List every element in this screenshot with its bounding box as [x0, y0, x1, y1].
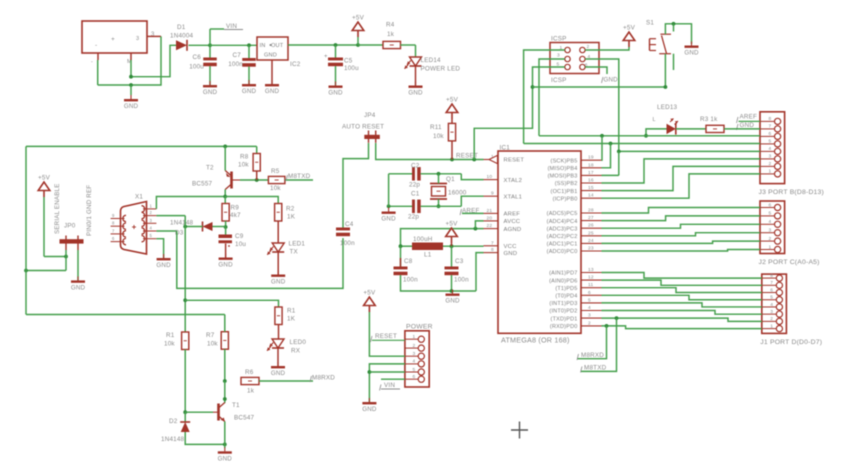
- wire ICSP MOSI: [585, 59, 619, 151]
- wire S1 to RESET net: [533, 54, 674, 89]
- svg-text:-: -: [91, 59, 93, 65]
- svg-text:GND: GND: [381, 216, 396, 223]
- ground S1: [684, 42, 699, 57]
- svg-text:(T1)PD5: (T1)PD5: [555, 286, 577, 292]
- svg-text:S1: S1: [646, 19, 654, 26]
- svg-text:100n: 100n: [454, 277, 469, 284]
- wire PB4 to MISO row: [602, 144, 611, 168]
- svg-text:D1: D1: [177, 24, 186, 31]
- wire PC3 to J2: [602, 224, 761, 228]
- svg-text:GND: GND: [504, 251, 518, 257]
- svg-text:(MISO)PB4: (MISO)PB4: [548, 166, 578, 172]
- svg-text:15: 15: [588, 185, 594, 191]
- wire filter ground bus: [401, 275, 477, 293]
- wire MISO row to J3: [524, 142, 760, 146]
- svg-text:POWER LED: POWER LED: [421, 66, 461, 73]
- svg-text:GND: GND: [271, 279, 286, 286]
- node GND label ICSP: [602, 77, 619, 84]
- wire VIN rail to C7 and IC2: [210, 43, 257, 47]
- svg-text:11: 11: [588, 282, 594, 288]
- wire C8 tap: [400, 246, 402, 266]
- svg-text:(ICP)PB0: (ICP)PB0: [553, 196, 578, 202]
- wire M8TXD label line: [581, 318, 617, 371]
- svg-text:L: L: [653, 117, 656, 123]
- wire C7 to ground: [248, 67, 250, 84]
- svg-text:R2: R2: [286, 206, 295, 213]
- wire R7 bottom to R6 node: [223, 349, 227, 383]
- svg-text:+5V: +5V: [446, 221, 459, 228]
- power +5V serial enable: [38, 175, 51, 198]
- svg-text:C9: C9: [235, 233, 244, 240]
- resistor R8: [238, 154, 260, 172]
- wire IC2 out to +5V rail: [288, 43, 360, 47]
- wire SCK row to J3: [539, 134, 760, 138]
- wire PD5 to J1: [602, 288, 762, 293]
- wire C5 tap: [335, 45, 337, 58]
- svg-text:3: 3: [769, 154, 772, 160]
- ground LED1: [271, 271, 286, 286]
- svg-text:(TXD)PD1: (TXD)PD1: [551, 316, 578, 322]
- wire PD0 to J1: [602, 326, 762, 329]
- svg-text:GND: GND: [740, 122, 755, 129]
- svg-text:L1: L1: [424, 252, 432, 259]
- resistor R1: [275, 307, 296, 325]
- wire R9 to D3 node: [224, 221, 228, 229]
- svg-text:2: 2: [770, 316, 773, 322]
- wire D3 cathode to RX column: [183, 225, 202, 229]
- svg-text:23: 23: [588, 246, 594, 252]
- mcu IC1 reset pin symbol: [489, 155, 498, 163]
- wire D2 to ground: [185, 432, 227, 446]
- svg-text:3: 3: [770, 309, 773, 315]
- svg-text:4: 4: [770, 302, 773, 308]
- svg-text:14: 14: [588, 193, 594, 199]
- capacitor C5: [324, 54, 359, 72]
- wire PD2 to J1: [602, 311, 762, 315]
- node RESET label POWER: [371, 333, 405, 342]
- wire JP4 to RESET net: [376, 143, 484, 161]
- wire ICSP VCC to +5V: [585, 47, 629, 50]
- svg-text:1N4004: 1N4004: [170, 33, 194, 40]
- wire T2 collector: [223, 190, 227, 199]
- svg-text:2: 2: [769, 161, 772, 167]
- svg-text:TX: TX: [290, 249, 299, 256]
- resistor R7: [206, 332, 228, 350]
- svg-text:+5V: +5V: [352, 15, 365, 22]
- svg-text:10k: 10k: [433, 133, 444, 140]
- svg-text:OUT: OUT: [271, 43, 284, 49]
- svg-text:100n: 100n: [403, 277, 418, 284]
- svg-text:3: 3: [557, 53, 560, 59]
- svg-text:8: 8: [769, 116, 772, 122]
- power +5V AVCC: [446, 221, 459, 247]
- wire RX to R1 top: [185, 300, 278, 307]
- svg-text:Q1: Q1: [446, 176, 455, 183]
- wire R6 to M8RXD: [259, 380, 313, 382]
- wire C7 tap: [248, 45, 250, 58]
- wire R2 to LED1: [277, 221, 279, 243]
- wire T1 emitter to ground: [224, 422, 226, 449]
- svg-text:XTAL2: XTAL2: [504, 178, 523, 184]
- LED13: [653, 104, 679, 135]
- wire PC5 to J2: [602, 208, 761, 214]
- wire RX column: [183, 216, 187, 332]
- svg-text:17: 17: [588, 170, 594, 176]
- svg-text:1: 1: [769, 169, 772, 175]
- svg-text:8: 8: [770, 273, 773, 279]
- capacitor C8: [394, 258, 419, 284]
- svg-text:7: 7: [491, 240, 494, 246]
- svg-text:C8: C8: [404, 258, 413, 265]
- wire X1 pin5 to ground: [156, 239, 163, 258]
- svg-text:AGND: AGND: [504, 227, 522, 233]
- svg-text:1: 1: [769, 244, 772, 250]
- svg-text:C5: C5: [344, 58, 353, 65]
- connector X1 DB9: [121, 194, 147, 255]
- wire ICSP RESET: [474, 67, 565, 160]
- svg-text:3: 3: [588, 313, 591, 319]
- resistor R9: [222, 204, 241, 222]
- wire MOSI row to J3: [617, 150, 760, 154]
- svg-text:9: 9: [491, 191, 494, 197]
- inductor L1: [412, 236, 443, 259]
- wire R8 top: [256, 146, 258, 153]
- svg-text:M8RXD: M8RXD: [581, 352, 604, 359]
- svg-text:IC2: IC2: [290, 61, 301, 68]
- header ICSP body: [550, 36, 599, 85]
- header POWER body: [405, 324, 433, 388]
- resistor R3: [700, 116, 724, 133]
- svg-text:7: 7: [769, 124, 772, 130]
- cursor cross mark: [511, 422, 528, 439]
- svg-text:(SS)PB2: (SS)PB2: [555, 181, 578, 187]
- wire +5V to JP0: [26, 197, 68, 271]
- wire power jack tip to diode: [129, 45, 176, 78]
- svg-text:ATMEGA8 (OR 168): ATMEGA8 (OR 168): [501, 336, 570, 345]
- svg-text:100n: 100n: [228, 61, 243, 68]
- wire C9 top: [225, 227, 227, 235]
- svg-text:6: 6: [769, 131, 772, 137]
- wire crystal top: [438, 174, 440, 184]
- svg-text:5: 5: [769, 211, 772, 217]
- svg-text:(SCK)PB5: (SCK)PB5: [551, 158, 578, 164]
- svg-text:(ADC0)PC0: (ADC0)PC0: [547, 249, 578, 255]
- svg-text:ICSP: ICSP: [551, 77, 567, 84]
- svg-text:GND: GND: [218, 455, 233, 462]
- svg-text:RESET: RESET: [375, 333, 397, 340]
- wire PD1 to J1: [602, 318, 762, 321]
- capacitor C2: [409, 163, 421, 189]
- node RESET label near IC1: [456, 153, 478, 160]
- wire C4 top to JP4: [343, 143, 369, 228]
- wire C9 to ground: [225, 244, 227, 258]
- ground T1: [218, 447, 233, 462]
- mcu IC1 right pins: [547, 155, 602, 330]
- wire X1 pin4 to DTR column: [156, 230, 176, 232]
- svg-text:SERIAL ENABLE: SERIAL ENABLE: [54, 183, 61, 234]
- svg-text:26: 26: [588, 223, 594, 229]
- svg-text:GND: GND: [265, 88, 280, 95]
- resistor R5: [268, 168, 285, 192]
- svg-text:R3 1k: R3 1k: [700, 116, 718, 123]
- wire M8RXD label line: [577, 326, 606, 359]
- label PIN0/1 GND REF: [86, 185, 93, 236]
- wire PD7 to J1: [602, 273, 762, 279]
- wire POWER gnd pins: [368, 364, 405, 402]
- svg-text:RESET: RESET: [504, 158, 525, 164]
- connector X1 contacts: [121, 206, 147, 245]
- svg-text:M8TXD: M8TXD: [288, 173, 311, 180]
- svg-text:GND: GND: [71, 284, 86, 291]
- diode D1: [170, 24, 194, 51]
- svg-text:1k: 1k: [387, 31, 395, 38]
- svg-text:10: 10: [487, 174, 493, 180]
- svg-text:10k: 10k: [164, 341, 175, 348]
- wire D1 to VIN node: [189, 43, 212, 47]
- crystal Q1: [430, 176, 467, 199]
- svg-text:(INT1)PD3: (INT1)PD3: [549, 301, 577, 307]
- svg-text:3: 3: [136, 36, 139, 42]
- svg-text:+: +: [324, 54, 328, 60]
- svg-text:4k7: 4k7: [230, 212, 241, 219]
- wire PB2 to J3: [602, 159, 761, 183]
- svg-text:10k: 10k: [238, 162, 249, 169]
- capacitor C3: [445, 258, 470, 284]
- diode D2: [161, 412, 190, 443]
- node M8TXD label under IC: [581, 365, 607, 373]
- power connector X-PWR: [82, 21, 161, 65]
- svg-text:7: 7: [770, 280, 773, 286]
- svg-text:GND: GND: [328, 90, 343, 97]
- wire PC0 to J2: [602, 250, 761, 252]
- svg-text:1k: 1k: [247, 388, 255, 395]
- capacitor C6: [189, 54, 217, 71]
- wire LED13 anode: [644, 129, 666, 138]
- wire R5 to M8TXD: [285, 179, 313, 181]
- wire C6 to ground: [209, 66, 211, 85]
- svg-text:BC557: BC557: [192, 181, 213, 188]
- svg-text:GND: GND: [242, 88, 257, 95]
- svg-text:(ADC2)PC2: (ADC2)PC2: [547, 234, 578, 240]
- wire R4 to LED14: [401, 45, 416, 57]
- svg-text:1N4148: 1N4148: [161, 436, 185, 443]
- svg-text:(ADC5)PC5: (ADC5)PC5: [547, 211, 578, 217]
- svg-text:1: 1: [413, 334, 416, 340]
- svg-text:1K: 1K: [287, 316, 296, 323]
- svg-text:AREF: AREF: [504, 212, 521, 218]
- svg-text:100u: 100u: [344, 65, 359, 72]
- svg-text:R5: R5: [271, 168, 280, 175]
- wire LED13 to R3: [676, 128, 706, 130]
- wire R10 to T1 base node: [183, 350, 187, 415]
- wire IC2 ground pin: [271, 60, 273, 84]
- node AREF label: [460, 208, 484, 216]
- svg-text:5: 5: [770, 295, 773, 301]
- ground crystal: [381, 208, 396, 223]
- svg-text:(T0)PD4: (T0)PD4: [555, 294, 577, 300]
- wire AGND net: [401, 227, 484, 246]
- svg-text:GND: GND: [684, 50, 699, 57]
- wire R7 top to +5V rail: [224, 315, 226, 332]
- svg-text:JP0: JP0: [64, 223, 76, 230]
- wire JP0 pin2 to ground: [77, 250, 79, 280]
- svg-text:24: 24: [588, 238, 594, 244]
- svg-text:10k: 10k: [207, 341, 218, 348]
- svg-text:GND: GND: [271, 370, 286, 377]
- svg-text:X1: X1: [135, 194, 143, 201]
- svg-text:C4: C4: [345, 221, 354, 228]
- svg-text:GND: GND: [218, 262, 233, 269]
- transistor T1 BC547: [213, 402, 255, 422]
- svg-text:6: 6: [770, 287, 773, 293]
- svg-text:R1: R1: [287, 308, 296, 315]
- svg-text:20: 20: [487, 215, 493, 221]
- svg-text:D2: D2: [169, 418, 178, 425]
- wire T1 base: [185, 411, 213, 413]
- svg-text:AVCC: AVCC: [504, 219, 521, 225]
- svg-text:+5V: +5V: [623, 25, 636, 32]
- node AREF label J3: [737, 114, 761, 124]
- svg-text:+: +: [111, 36, 115, 43]
- svg-text:100uH: 100uH: [413, 236, 433, 243]
- ground LED0: [271, 362, 286, 377]
- wire C1 to XTAL1: [421, 196, 484, 206]
- svg-text:(ADC1)PC1: (ADC1)PC1: [547, 242, 578, 248]
- svg-text:AUTO RESET: AUTO RESET: [342, 124, 384, 131]
- svg-text:RX: RX: [291, 348, 301, 355]
- wire PB0 to J3: [602, 174, 761, 198]
- wire PC1 to J2: [602, 241, 761, 243]
- wire R3 to J3 GND row: [724, 128, 760, 130]
- svg-text:J3 PORT B(D8-D13): J3 PORT B(D8-D13): [759, 189, 824, 196]
- node M8RXD label under IC: [577, 352, 604, 360]
- svg-text:22: 22: [487, 223, 493, 229]
- wire PD6 to J1: [602, 280, 762, 285]
- svg-text:JP4: JP4: [364, 112, 376, 119]
- svg-text:(MOSI)PB3: (MOSI)PB3: [548, 174, 578, 180]
- svg-text:BC547: BC547: [234, 415, 255, 422]
- svg-text:GND: GND: [203, 89, 218, 96]
- wire R8 bottom: [256, 171, 258, 180]
- svg-text:(AIN0)PD6: (AIN0)PD6: [549, 278, 577, 284]
- svg-text:R8: R8: [240, 154, 249, 161]
- svg-text:5: 5: [413, 367, 416, 373]
- capacitor C7: [228, 52, 256, 68]
- ground POWER header: [362, 398, 377, 413]
- svg-text:27: 27: [588, 215, 594, 221]
- svg-text:13: 13: [588, 267, 594, 273]
- wire T2 base net: [240, 178, 268, 182]
- svg-text:1K: 1K: [287, 214, 296, 221]
- svg-text:VIN: VIN: [226, 23, 237, 30]
- svg-text:GND: GND: [264, 53, 277, 59]
- svg-text:AREF: AREF: [740, 114, 758, 121]
- junction M8TXD tap: [615, 316, 619, 320]
- wire T2 emitter to +5V rail: [224, 146, 226, 170]
- wire PB1 to J3: [602, 166, 761, 190]
- wire DTR column: [177, 231, 343, 288]
- wire LED14 to ground: [415, 66, 417, 86]
- svg-text:100u: 100u: [189, 64, 204, 71]
- node VIN label: [210, 23, 243, 45]
- svg-text:XTAL1: XTAL1: [504, 194, 523, 200]
- wire collector net to R2: [225, 197, 278, 204]
- svg-text:LED13: LED13: [657, 104, 678, 111]
- wire L1 left: [399, 244, 412, 248]
- ground power jack: [124, 85, 139, 110]
- svg-text:1: 1: [770, 323, 773, 329]
- svg-text:12: 12: [588, 275, 594, 281]
- svg-text:R4: R4: [386, 22, 395, 29]
- svg-text:5: 5: [769, 139, 772, 145]
- wire L1 right to VCC: [443, 244, 484, 248]
- svg-text:3: 3: [769, 228, 772, 234]
- resistor R6: [241, 369, 259, 395]
- svg-text:GND: GND: [156, 262, 171, 269]
- ground X1: [156, 254, 171, 269]
- svg-text:4: 4: [769, 219, 772, 225]
- power +5V POWER header: [363, 290, 404, 357]
- svg-text:VIN: VIN: [384, 382, 395, 389]
- switch S1: [646, 19, 671, 53]
- svg-text:C1: C1: [411, 191, 420, 198]
- wire ICSP SCK: [539, 59, 565, 136]
- wire LED1 to ground: [277, 252, 279, 275]
- svg-text:6: 6: [588, 290, 591, 296]
- wire AVCC net: [475, 221, 483, 229]
- svg-text:GND: GND: [604, 77, 619, 84]
- svg-text:GND: GND: [445, 298, 460, 305]
- wire X1 pin2 to RX column: [156, 215, 185, 217]
- svg-text:R9: R9: [231, 205, 240, 212]
- svg-text:GND: GND: [362, 406, 377, 413]
- resistor R2: [275, 204, 296, 222]
- wire ICSP MISO: [524, 50, 565, 144]
- svg-text:2: 2: [588, 320, 591, 326]
- wire PD3 to J1: [602, 303, 762, 307]
- svg-text:T1: T1: [232, 402, 240, 409]
- node M8TXD label: [286, 173, 311, 181]
- svg-text:6: 6: [413, 374, 416, 380]
- svg-text:LED14: LED14: [421, 57, 442, 64]
- ground JP0: [71, 276, 86, 291]
- svg-text:M8RXD: M8RXD: [312, 375, 335, 382]
- svg-text:2: 2: [413, 343, 416, 349]
- label SERIAL ENABLE: [54, 183, 61, 234]
- svg-text:1N4148: 1N4148: [170, 220, 194, 227]
- wire PC2 to J2: [602, 233, 761, 236]
- svg-text:C3: C3: [455, 258, 464, 265]
- wire R9 net: [224, 197, 226, 204]
- svg-text:IN: IN: [260, 43, 266, 49]
- svg-text:R11: R11: [430, 124, 442, 131]
- svg-text:18: 18: [588, 162, 594, 168]
- wire R1 to LED0: [278, 325, 280, 340]
- svg-text:IC1: IC1: [500, 145, 511, 152]
- svg-text:C2: C2: [411, 163, 420, 170]
- svg-text:28: 28: [588, 208, 594, 214]
- svg-text:C7: C7: [233, 52, 242, 59]
- wire ICSP GND stub: [585, 67, 607, 74]
- mcu IC1 left pins: [484, 154, 525, 257]
- svg-text:J2 PORT C(A0-A5): J2 PORT C(A0-A5): [759, 259, 820, 266]
- svg-text:25: 25: [588, 230, 594, 236]
- wire +5V top rail: [26, 145, 257, 149]
- svg-text:+5V: +5V: [446, 97, 459, 104]
- ground C7: [242, 80, 257, 95]
- svg-text:+5V: +5V: [38, 175, 51, 182]
- wire C3 tap: [451, 246, 453, 266]
